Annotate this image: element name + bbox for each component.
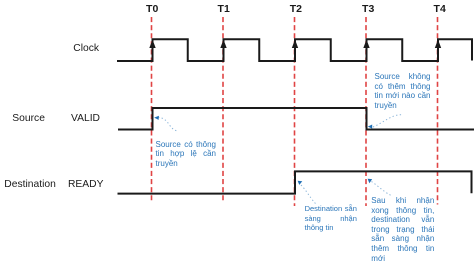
timing marker T3 dashed line <box>365 17 367 206</box>
label Clock <box>73 43 99 54</box>
label Destination <box>4 179 56 190</box>
label T3 <box>362 3 374 15</box>
label T0 <box>146 3 158 15</box>
callout arrow to VALID rising edge <box>154 116 176 131</box>
label READY <box>68 179 103 190</box>
label T1 <box>218 3 230 15</box>
Clock waveform <box>117 39 472 61</box>
label Source <box>12 113 45 124</box>
annotation: Sau khi nhan xong thong tin destination van trong trang thai san sang nhan them thong tin moi <box>371 196 434 263</box>
clock edge arrow at T1 <box>220 40 226 62</box>
label T4 <box>434 3 446 15</box>
timing marker T1 dashed line <box>222 17 224 202</box>
VALID waveform <box>118 108 474 130</box>
label T2 <box>290 3 302 15</box>
annotation: Source co thong tin hop le can truyen <box>156 140 217 169</box>
callout arrow to VALID falling edge <box>368 115 403 129</box>
READY waveform <box>118 171 472 193</box>
annotation: Source khong co them thong tin moi nao can truyen <box>375 72 431 110</box>
label VALID <box>71 113 100 124</box>
clock edge arrow at T3 <box>363 40 369 62</box>
clock edge arrow at T2 <box>292 40 298 62</box>
callout arrow to READY rising edge <box>298 181 316 204</box>
annotation: Destination san sang nhan thong tin <box>305 204 357 233</box>
timing marker T2 dashed line <box>294 17 296 206</box>
timing marker T0 dashed line <box>151 17 153 202</box>
clock edge arrow at T4 <box>435 40 441 62</box>
callout arrow to READY high after T3 <box>368 179 392 196</box>
timing marker T4 dashed line <box>437 17 439 205</box>
clock edge arrow at T0 <box>149 40 155 62</box>
